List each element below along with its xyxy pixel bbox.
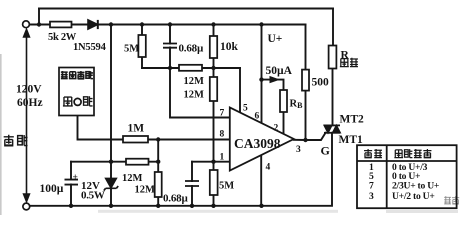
label tong (on) [63, 97, 73, 106]
diode 1N5594 [88, 20, 98, 29]
wire: 100u cap column x=71 [70, 162, 72, 206]
wire: touch plate to 1M row [78, 105, 124, 139]
resistor 1M [123, 136, 148, 143]
wire: 5M top resistor stubs [141, 25, 143, 69]
capacitor 100u electrolytic [65, 180, 79, 185]
wire: top rail [39, 8, 333, 10]
node: 1M right [156, 137, 160, 141]
wire: RB to pin 2 [283, 112, 285, 134]
AC source arrow line [24, 30, 30, 202]
svg-text:+: + [73, 173, 78, 183]
table rows [369, 162, 439, 202]
wire: 50uA branch to RB [262, 80, 284, 90]
svg-text:RB: RB [290, 99, 304, 111]
resistor 12M vertical lower [155, 172, 162, 197]
resistor 5M upper [138, 35, 145, 57]
svg-text:12M: 12M [122, 173, 143, 184]
resistor R load [329, 46, 337, 69]
resistor RB [280, 90, 287, 112]
node: 50uA tap [259, 77, 263, 81]
resistor 12M vertical upper [210, 77, 217, 101]
resistor 5k 2W [50, 22, 72, 28]
wire: output row to gate [294, 133, 326, 140]
node: row2 zener [109, 160, 113, 164]
wire: row2 left segment [71, 161, 158, 163]
wire: pin 8 row [148, 139, 230, 141]
svg-text:6: 6 [255, 112, 260, 122]
resistor 500 [302, 70, 309, 91]
touch plate box [59, 68, 94, 116]
resistor 5M lower [210, 170, 218, 195]
svg-text:2/3U+ to U+: 2/3U+ to U+ [392, 180, 439, 191]
wire: top rail right drop to load resistor [332, 9, 334, 46]
node: integrator [168, 66, 172, 70]
node: U+ rail top [259, 22, 263, 26]
wire: pin 4 drop [260, 155, 262, 206]
current arrow 50uA [270, 77, 279, 83]
node: 10k top [211, 22, 215, 26]
capacitor 0.68u upper [163, 44, 177, 48]
wire: row2 right segment to pin 1 [192, 161, 230, 163]
node: main bus top-left [37, 22, 41, 26]
svg-text:1N5594: 1N5594 [73, 42, 107, 53]
node: rail zener [109, 204, 113, 208]
node: output [303, 138, 307, 142]
terminal: top left [23, 21, 30, 28]
table header voltage-swing [394, 149, 431, 158]
svg-text:3: 3 [369, 191, 374, 202]
wire: U+ rail x=261.5 [261, 25, 263, 124]
wire: pin 5 drop [239, 68, 241, 112]
triac [324, 125, 340, 132]
node: zener column top [109, 22, 113, 26]
svg-text:12M: 12M [184, 90, 205, 101]
svg-text:7: 7 [369, 180, 374, 191]
wire: integrator node down to pin 7 [170, 68, 230, 118]
wire: 500 to output node [305, 91, 307, 140]
svg-text:60Hz: 60Hz [17, 97, 43, 109]
svg-text:2: 2 [274, 124, 279, 134]
wire: 12M vertical lower stubs [157, 162, 159, 206]
node: rail pin4 [259, 204, 263, 208]
label ji-ban (plate) [4, 135, 28, 146]
wire: bottom rail [30, 133, 332, 206]
svg-text:U+/2 to U+: U+/2 to U+ [392, 191, 435, 202]
resistor 10k [210, 36, 217, 58]
zener diode 12V [104, 178, 118, 190]
node: rail 5M [211, 204, 215, 208]
wire: 1M junction drop to row2 [157, 140, 159, 162]
svg-text:1: 1 [220, 153, 225, 163]
svg-text:12M: 12M [135, 185, 156, 196]
label touch-plate title [61, 71, 93, 79]
voltage table [357, 145, 457, 208]
wire: 0.68u cap column x=170 [169, 25, 171, 69]
node: rail 0.68u [190, 204, 194, 208]
svg-text:8: 8 [220, 130, 225, 140]
svg-text:10k: 10k [220, 41, 239, 53]
svg-text:U+: U+ [268, 33, 283, 45]
svg-text:4: 4 [266, 163, 271, 173]
svg-text:0.5W: 0.5W [81, 190, 105, 202]
svg-text:3: 3 [296, 145, 301, 155]
node: cap top [168, 22, 172, 26]
wire: row y=68 with 12M to pin5 corner [170, 67, 240, 69]
svg-text:100µ: 100µ [40, 183, 64, 195]
scan edge artifact left [0, 54, 2, 215]
wire: 0.68u lower cap column x=192 [191, 162, 193, 206]
wire: 5M bottom corner to integrator node [142, 67, 170, 69]
wire: 500-ohm branch drop [305, 25, 307, 70]
svg-text:5M: 5M [219, 181, 234, 192]
svg-text:500: 500 [312, 77, 330, 89]
resistor 12M horizontal lower [126, 159, 149, 165]
svg-text:50µA: 50µA [266, 65, 293, 77]
wire: load column MT2 [332, 69, 334, 126]
switch circle [74, 98, 81, 105]
node: rail 12M [156, 204, 160, 208]
resistor 12M horizontal upper [179, 65, 202, 71]
wire: zener column x=111 [110, 25, 112, 206]
capacitor 0.68u lower [185, 181, 199, 186]
svg-text:CA3098: CA3098 [234, 136, 281, 151]
svg-text:G: G [321, 144, 330, 158]
node: 5M top [140, 22, 144, 26]
wire: 10k column x=213.5 [213, 25, 215, 206]
svg-text:12M: 12M [184, 76, 205, 87]
svg-text:0.68µ: 0.68µ [163, 193, 188, 205]
svg-text:7: 7 [220, 109, 225, 119]
node: rail 100u [69, 204, 73, 208]
terminal: bottom left [23, 203, 30, 210]
svg-text:0.68µ: 0.68µ [179, 43, 204, 55]
svg-text:5M: 5M [124, 44, 139, 55]
node: row2 pin1 [211, 160, 215, 164]
svg-text:MT2: MT2 [340, 114, 365, 126]
svg-text:5: 5 [243, 104, 248, 114]
table header pin-no [364, 149, 382, 158]
wire: top rail left drop to main wire [38, 9, 40, 25]
label fu-zai (load) [340, 58, 358, 67]
op-amp U1 CA3098 [230, 107, 294, 170]
label duan (off) [84, 96, 93, 106]
node: row2 12M [156, 160, 160, 164]
wire: main horizontal bus y=24.5 [30, 24, 306, 26]
svg-text:MT1: MT1 [339, 134, 364, 146]
watermark [98, 196, 459, 213]
svg-text:120V: 120V [16, 84, 42, 96]
svg-text:1M: 1M [128, 123, 145, 135]
node: 10k bottom [211, 66, 215, 70]
